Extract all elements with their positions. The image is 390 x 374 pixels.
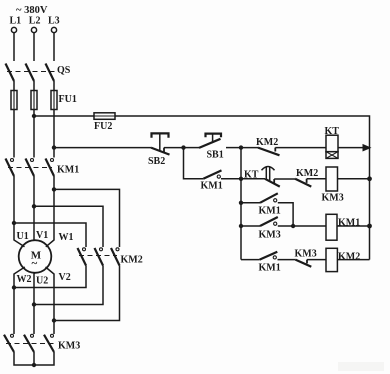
svg-text:KM3: KM3 [259,230,281,241]
svg-text:QS: QS [57,65,71,76]
svg-text:FU2: FU2 [94,121,112,132]
svg-text:KM2: KM2 [256,137,278,148]
svg-text:V1: V1 [36,230,48,241]
svg-text:KM1: KM1 [57,165,79,176]
svg-text:SB2: SB2 [148,156,165,167]
svg-text:KT: KT [325,126,340,137]
svg-text:~: ~ [32,258,38,270]
svg-text:L3: L3 [48,16,60,27]
svg-text:KM2: KM2 [338,252,360,263]
svg-text:KM1: KM1 [201,181,223,192]
svg-text:KM1: KM1 [259,206,281,217]
svg-text:KM1: KM1 [259,263,281,274]
svg-text:KM2: KM2 [121,255,143,266]
svg-text:KM3: KM3 [322,193,344,204]
svg-text:W1: W1 [59,232,74,243]
svg-text:U2: U2 [36,276,48,287]
svg-text:W2: W2 [17,274,32,285]
svg-text:U1: U1 [17,231,29,242]
svg-text:L1: L1 [10,16,22,27]
svg-text:KT: KT [244,170,259,181]
svg-text:SB1: SB1 [207,150,224,161]
svg-text:KM2: KM2 [296,168,318,179]
svg-text:KM1: KM1 [338,218,360,229]
svg-text:~ 380V: ~ 380V [16,5,48,16]
svg-text:L2: L2 [29,16,41,27]
svg-text:V2: V2 [59,272,71,283]
svg-text:KM3: KM3 [58,341,80,352]
svg-text:KM3: KM3 [295,249,317,260]
svg-text:FU1: FU1 [59,94,77,105]
